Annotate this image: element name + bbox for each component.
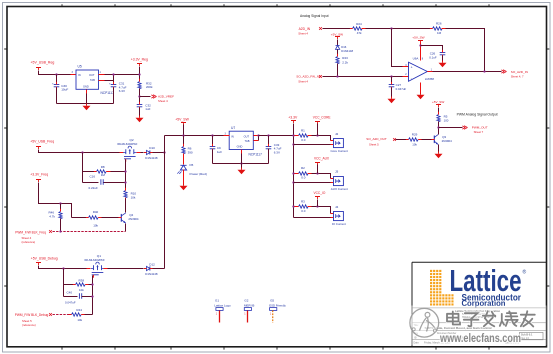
junction U7 tab tie xyxy=(257,134,259,136)
sheet title row xyxy=(414,324,492,330)
watermark wash xyxy=(410,306,547,346)
svg-text:D10: D10 xyxy=(149,146,155,150)
ground under U5 xyxy=(83,104,91,111)
junction gate at C row xyxy=(124,181,126,183)
svg-text:1M: 1M xyxy=(101,173,106,177)
junction rail row3 xyxy=(292,205,294,207)
net +5V_SW flag Q3 xyxy=(432,100,444,107)
wire PWM freq dashed xyxy=(53,231,126,233)
junction VCC_AUX tap xyxy=(316,172,318,174)
svg-text:J2: J2 xyxy=(335,132,339,136)
resistor R8 xyxy=(94,165,126,177)
svg-text:2.2k: 2.2k xyxy=(342,61,348,65)
svg-text:ESD Friendly: ESD Friendly xyxy=(269,303,286,307)
svg-text:D12: D12 xyxy=(149,262,155,266)
pin stub J2 pin1 xyxy=(331,140,334,142)
svg-text:D1N4148: D1N4148 xyxy=(341,49,353,53)
wire op-amp ground pin xyxy=(420,83,422,93)
capacitor C40 xyxy=(65,290,93,304)
wire R23 to so line xyxy=(337,64,339,77)
title block logo rule xyxy=(412,307,547,309)
wire clamp chain xyxy=(337,40,339,46)
svg-text:R44: R44 xyxy=(76,308,82,312)
junction gate at R row xyxy=(124,170,126,172)
wire op-amp output xyxy=(433,71,502,73)
pin stub U5 OUT xyxy=(99,74,105,76)
net arrow SO_A2D_IN xyxy=(501,70,528,79)
svg-text:Sheet 4: Sheet 4 xyxy=(158,99,168,103)
svg-text:Sheet 5: Sheet 5 xyxy=(369,143,379,147)
net +5V_USB_Reg power flag xyxy=(31,61,55,70)
junction main vertical at D10 xyxy=(163,151,165,153)
svg-text:Analog Signal Input: Analog Signal Input xyxy=(300,13,329,18)
svg-text:IRLML6402PbF: IRLML6402PbF xyxy=(85,258,105,262)
junction VCC_IO tap xyxy=(316,205,318,207)
svg-text:1uF: 1uF xyxy=(145,107,150,111)
svg-text:+3.3V: +3.3V xyxy=(288,116,298,120)
wire TAB tie-up xyxy=(105,75,114,81)
wire Q1 gate down xyxy=(92,276,94,315)
net arrow PWM_DAC_OUT xyxy=(462,126,487,135)
junction C33 xyxy=(267,134,269,136)
pin stub U5 GND xyxy=(86,90,88,94)
border zone ticks left xyxy=(4,49,7,286)
junction gate loop left xyxy=(81,151,83,153)
net VCC_CORE power flag xyxy=(313,116,331,136)
LED D5 xyxy=(177,154,207,184)
wire R3 to J4 xyxy=(312,207,331,214)
pin stub op-amp in+ top xyxy=(403,66,409,68)
wire gate loop left vertical Q1 xyxy=(63,269,65,297)
svg-text:GND: GND xyxy=(237,145,243,149)
wire rail to J2 pin2 xyxy=(294,144,331,146)
connector J2 xyxy=(331,132,349,153)
svg-text:Sheet 4: Sheet 4 xyxy=(298,79,308,83)
svg-text:SO_A2D_FW_NP: SO_A2D_FW_NP xyxy=(296,75,321,79)
resistor R38 xyxy=(73,279,93,292)
wire +5V_USB_Debug to Q1 xyxy=(39,266,87,269)
wire R5 to Q3 collector xyxy=(438,122,440,135)
pin stub op-amp in- bottom xyxy=(403,76,409,78)
svg-text:+5V_USB_Debug: +5V_USB_Debug xyxy=(31,257,58,261)
wire TAB tie-up U7 xyxy=(258,136,260,141)
ground under C32 xyxy=(136,116,144,123)
svg-text:+3.3V_Freq: +3.3V_Freq xyxy=(30,172,48,176)
pin stub Q1 drain xyxy=(104,268,108,270)
wire supply to op-amp V+ xyxy=(420,43,422,61)
capacitor C26 xyxy=(429,50,445,61)
border zone ticks bottom xyxy=(62,347,489,350)
svg-text:R26: R26 xyxy=(436,21,442,25)
svg-text:VCC_CORE: VCC_CORE xyxy=(313,116,331,120)
Lattice logo checker upper xyxy=(430,269,442,293)
pin stub U7 TAB xyxy=(254,140,259,142)
capacitor C16 xyxy=(89,175,126,191)
junction rail row1 xyxy=(292,134,294,136)
pin stub Q2 source xyxy=(120,152,124,154)
svg-text:(reference): (reference) xyxy=(22,323,36,327)
svg-text:+5V_USB_Reg: +5V_USB_Reg xyxy=(31,61,55,65)
resistor R3 xyxy=(295,200,312,214)
wire U7 GND to rail xyxy=(241,154,243,164)
wire supply to R5 xyxy=(438,108,440,115)
svg-text:0.1uF: 0.1uF xyxy=(429,56,437,60)
svg-text:47k: 47k xyxy=(357,31,362,35)
svg-text:+3.3V_Reg: +3.3V_Reg xyxy=(131,57,148,61)
transistor Q4 xyxy=(119,212,139,232)
junction 5V bus at C9 xyxy=(211,134,213,136)
wire U7 ground rail xyxy=(213,163,269,165)
wire C40 row xyxy=(64,296,78,298)
pin stub U7 IN xyxy=(224,135,230,137)
transistor Q1 xyxy=(85,254,105,278)
title block frame xyxy=(412,262,547,346)
capacitor C30 xyxy=(52,75,68,104)
svg-text:Sheet 4: Sheet 4 xyxy=(298,32,308,36)
svg-text:R24: R24 xyxy=(356,22,362,26)
wire 3.3V bus xyxy=(259,135,294,137)
net VCC_IO power flag xyxy=(314,191,326,206)
net +5V_SW op-amp supply flag xyxy=(412,35,424,43)
svg-text:4.7k: 4.7k xyxy=(49,215,55,219)
net arrow A2D_VREF xyxy=(151,95,174,103)
junction rail row2 xyxy=(292,172,294,174)
svg-text:IN: IN xyxy=(78,73,81,77)
svg-text:TAB: TAB xyxy=(90,78,95,82)
svg-text:IRLML6402PbF: IRLML6402PbF xyxy=(117,142,137,146)
svg-text:VCC_AUX: VCC_AUX xyxy=(314,156,330,160)
resistor R10 xyxy=(124,188,137,212)
svg-text:Power (Red): Power (Red) xyxy=(190,172,207,176)
junction VCC_CORE tap xyxy=(316,134,318,136)
junction supply branch xyxy=(419,44,421,46)
junction PWM out tap xyxy=(437,126,439,128)
svg-text:D1N4148: D1N4148 xyxy=(145,272,158,276)
junction C27 tap xyxy=(390,75,392,77)
ground under op-amp xyxy=(417,93,425,100)
border zone ticks top xyxy=(62,4,489,7)
svg-text:0.0: 0.0 xyxy=(301,176,306,180)
wire Q2 drain to D10 xyxy=(141,152,144,154)
svg-text:Lattice Logo: Lattice Logo xyxy=(214,303,231,307)
svg-text:NCP1117: NCP1117 xyxy=(249,152,263,156)
resistor R32 xyxy=(138,79,153,92)
ground under C27 xyxy=(388,97,396,104)
junction Q1 gate at C40 xyxy=(91,295,93,297)
junction rail row2 pin2 xyxy=(292,181,294,183)
svg-text:0.0: 0.0 xyxy=(301,138,306,142)
connector J4 xyxy=(332,205,346,226)
svg-text:PWM_F/W BLK_Freq: PWM_F/W BLK_Freq xyxy=(15,230,46,234)
svg-text:SO_A2D_IN: SO_A2D_IN xyxy=(511,70,528,74)
Lattice wordmark xyxy=(450,263,527,298)
ground under C26 xyxy=(439,61,447,68)
svg-text:10k: 10k xyxy=(93,224,98,228)
svg-text:D1N4148: D1N4148 xyxy=(145,156,158,160)
wire Q4 base row xyxy=(72,217,89,219)
wire Q2 gate down xyxy=(125,160,127,191)
svg-text:OUT: OUT xyxy=(89,73,95,77)
pin stub Q1 source xyxy=(87,268,91,270)
svg-text:0.047uF: 0.047uF xyxy=(65,301,76,305)
svg-text:U5: U5 xyxy=(78,65,82,69)
resistor R46 xyxy=(49,204,63,232)
wire U5 OUT to +3.3V_Reg node xyxy=(105,74,140,76)
svg-text:G2: G2 xyxy=(244,299,248,303)
wire rail to J3 pin2 xyxy=(294,182,331,184)
capacitor C9 xyxy=(210,136,223,164)
net +5V_SW clamp flag xyxy=(331,32,343,39)
svg-text:OUT: OUT xyxy=(244,134,250,138)
wire R38 row xyxy=(64,284,76,286)
junction vref tap xyxy=(138,95,140,97)
wire D16 to R23 xyxy=(337,50,339,57)
svg-text:C40: C40 xyxy=(67,290,73,294)
wire PWM debug dashed xyxy=(53,314,72,316)
svg-text:R3: R3 xyxy=(301,200,305,204)
op-amp U6A xyxy=(405,56,434,81)
ground under Q3 xyxy=(435,152,443,159)
wire R1 to J2 xyxy=(312,136,331,141)
svg-text:U7: U7 xyxy=(231,126,235,130)
svg-text:IN: IN xyxy=(231,134,234,138)
svg-text:A2D_IN: A2D_IN xyxy=(299,27,311,31)
wire +5V_USB_Freq to Q2 xyxy=(39,150,120,153)
wire +3.3V_Freq feed xyxy=(39,183,72,218)
pin stub J3 pin2 xyxy=(331,182,334,184)
watermark circle logo xyxy=(410,308,439,337)
junction R46 top xyxy=(59,202,61,204)
wire gate loop C row xyxy=(83,182,99,184)
connector J3 xyxy=(331,170,348,191)
wire gate loop R row xyxy=(83,171,97,173)
test pad G2 xyxy=(244,299,254,323)
net +3.3V_Freq power flag xyxy=(30,172,48,182)
wire +5V_SW to bus xyxy=(183,125,185,136)
wire GND pin to rail xyxy=(86,94,88,104)
capacitor C32 xyxy=(137,102,151,116)
net +5V_USB_Debug power flag xyxy=(31,257,58,266)
net label PWM_F/W BLK_Debug xyxy=(15,313,52,327)
svg-text:1M: 1M xyxy=(437,31,442,35)
wire +3.3V_Reg down xyxy=(139,67,141,82)
svg-text:NCP1117: NCP1117 xyxy=(101,91,115,95)
resistor R1 xyxy=(295,128,312,142)
svg-text:+5V_SW: +5V_SW xyxy=(175,117,189,121)
company address lines xyxy=(455,309,500,322)
wire +5V_USB_Reg to U5 IN xyxy=(39,71,71,75)
junction R46 bottom xyxy=(59,230,61,232)
pin stub Q2 drain xyxy=(137,152,141,154)
resistor R23 xyxy=(336,54,349,67)
svg-text:IO Current: IO Current xyxy=(332,222,346,226)
svg-text:0.047uF: 0.047uF xyxy=(396,87,407,91)
wire Q1 drain to D12 xyxy=(108,268,144,270)
svg-text:R23: R23 xyxy=(342,56,348,60)
wire SO_A2D_OUT to R29 xyxy=(396,139,409,141)
pin stub U7 OUT xyxy=(254,135,259,137)
regulator U7 xyxy=(229,126,262,156)
wire R2 to J3 xyxy=(312,174,331,179)
svg-text:100: 100 xyxy=(444,118,449,122)
Lattice logo checker lower xyxy=(430,294,454,306)
svg-text:G1: G1 xyxy=(215,299,219,303)
svg-text:R2: R2 xyxy=(301,166,305,170)
wire feedback loop xyxy=(446,29,485,72)
svg-text:R29: R29 xyxy=(412,133,418,137)
test pad G1 xyxy=(214,299,231,323)
wire vref tap xyxy=(140,96,151,98)
svg-text:PWM Analog Signal Output: PWM Analog Signal Output xyxy=(457,112,499,116)
svg-text:D5: D5 xyxy=(190,163,194,167)
svg-text:R1: R1 xyxy=(301,128,305,132)
svg-text:GND: GND xyxy=(83,85,89,89)
wire R24 to R26 xyxy=(366,28,433,30)
svg-text:(reference): (reference) xyxy=(22,240,36,244)
pin stub op-amp out xyxy=(427,71,435,73)
svg-text:+: + xyxy=(411,66,413,70)
border zone ticks right xyxy=(547,49,550,286)
ground under U7 xyxy=(241,164,243,168)
svg-text:Core Current: Core Current xyxy=(331,149,349,153)
svg-text:G5: G5 xyxy=(270,299,274,303)
capacitor C31 xyxy=(109,81,127,104)
wire main 5V bus xyxy=(165,135,230,137)
ground under D5 xyxy=(180,184,188,191)
junction 5V bus at LED xyxy=(182,134,184,136)
wire R32 to C32 xyxy=(139,89,141,105)
svg-text:6.3V: 6.3V xyxy=(274,150,280,154)
diode D16 xyxy=(336,45,354,53)
wire A2D_IN to R24 xyxy=(323,28,353,30)
junction gate loop left Q1 xyxy=(62,267,64,269)
wire rail to J4 pin2 xyxy=(294,217,331,219)
svg-text:J3: J3 xyxy=(335,170,339,174)
svg-text:AUX Current: AUX Current xyxy=(331,187,348,191)
wire U5 ground rail xyxy=(57,103,114,105)
svg-text:2N3904: 2N3904 xyxy=(128,217,139,221)
svg-text:www.elecfans.com: www.elecfans.com xyxy=(439,333,521,345)
net +3.3V power flag xyxy=(288,116,298,123)
wire D10 to main vertical xyxy=(153,152,165,154)
junction node C30 top xyxy=(55,73,57,75)
net VCC_AUX power flag xyxy=(314,156,330,173)
wire gate loop left vertical xyxy=(82,153,84,183)
resistor R5 xyxy=(437,112,449,125)
svg-text:Sheet 7: Sheet 7 xyxy=(474,130,484,134)
svg-text:LM358: LM358 xyxy=(425,77,435,81)
junction rail row1 pin2 xyxy=(292,143,294,145)
net +5V_USB_Freq power flag xyxy=(30,139,54,149)
pin stub U5 IN xyxy=(71,74,77,76)
junction U5 out node xyxy=(138,73,140,75)
net +5V_SW power flag xyxy=(175,117,189,125)
svg-text:R40: R40 xyxy=(93,210,99,214)
title rule 3 xyxy=(412,338,547,340)
diode D12 xyxy=(144,262,158,276)
svg-text:PWM_OUT: PWM_OUT xyxy=(472,126,488,130)
wire main vertical feed xyxy=(164,136,166,269)
svg-text:200k: 200k xyxy=(146,85,153,89)
transistor Q2 xyxy=(117,138,137,162)
junction inverting node xyxy=(390,27,392,29)
svg-text:C16: C16 xyxy=(90,175,96,179)
svg-text:MER IB: MER IB xyxy=(244,303,254,307)
svg-text:VCC_IO: VCC_IO xyxy=(314,191,326,195)
resistor R29 xyxy=(406,133,432,147)
svg-text:®: ® xyxy=(523,269,527,276)
svg-text:+5V_SW: +5V_SW xyxy=(432,100,444,104)
junction Q1 gate at R38 xyxy=(91,283,93,285)
svg-text:390: 390 xyxy=(188,150,193,154)
svg-text:J4: J4 xyxy=(335,205,339,209)
net label PWM_F/W BLK_Freq xyxy=(15,230,52,244)
svg-text:-: - xyxy=(411,76,412,80)
svg-text:0.22uF: 0.22uF xyxy=(89,186,99,190)
svg-text:2N3904: 2N3904 xyxy=(442,139,453,143)
watermark chinese glyphs halo xyxy=(447,311,535,326)
pin stub J2 pin2 xyxy=(331,144,334,146)
pin stub J4 pin1 xyxy=(331,213,334,215)
resistor R40 xyxy=(86,210,119,228)
wire Q3 emitter xyxy=(438,145,440,152)
svg-text:10k: 10k xyxy=(79,288,84,292)
svg-text:+5V_SW: +5V_SW xyxy=(412,35,424,39)
wire supply branch to C26 xyxy=(421,46,443,53)
junction clamp tap xyxy=(336,75,338,77)
junction feedback at output xyxy=(483,70,485,72)
wire PWM out tap xyxy=(439,127,463,129)
svg-text:TAB: TAB xyxy=(245,139,250,143)
svg-text:6.3V: 6.3V xyxy=(119,89,125,93)
svg-text:R38: R38 xyxy=(79,279,85,283)
net label A2D_IN xyxy=(298,27,322,36)
resistor R44 xyxy=(69,308,93,322)
svg-text:0.0: 0.0 xyxy=(301,209,306,213)
net +3.3V_Reg power flag xyxy=(131,57,148,66)
wire inverting node down to op-amp xyxy=(392,29,405,67)
svg-text:U6A: U6A xyxy=(413,56,419,60)
watermark chinese glyphs xyxy=(447,311,535,326)
pin stub J4 pin2 xyxy=(331,217,334,219)
pin stub U7 GND xyxy=(241,150,243,154)
pin stub U5 TAB xyxy=(99,80,105,82)
svg-text:10k: 10k xyxy=(77,318,82,322)
diode D10 xyxy=(144,146,158,160)
transistor Q3 xyxy=(432,135,453,145)
wire D12 to main vertical xyxy=(153,268,165,270)
resistor R6 xyxy=(182,136,193,157)
regulator U5 xyxy=(76,65,114,95)
pin stub J3 pin1 xyxy=(331,178,334,180)
svg-text:10k: 10k xyxy=(131,195,136,199)
size doc rev row xyxy=(414,332,544,340)
junction ground rail xyxy=(240,162,242,164)
svg-text:R8: R8 xyxy=(101,165,105,169)
resistor R24 xyxy=(350,22,366,35)
resistor R2 xyxy=(295,166,312,180)
junction TAB tie xyxy=(112,73,114,75)
svg-text:1uF: 1uF xyxy=(217,150,222,154)
wire SO line to op-amp xyxy=(323,76,405,78)
svg-text:SO_A2D_OUT: SO_A2D_OUT xyxy=(366,137,387,141)
capacitor C33 xyxy=(266,136,282,164)
capacitor C27 xyxy=(389,77,407,97)
date sheet row xyxy=(414,340,520,344)
resistor R26 xyxy=(430,21,446,35)
test pad G5 xyxy=(269,299,286,323)
svg-text:10uF: 10uF xyxy=(61,88,68,92)
